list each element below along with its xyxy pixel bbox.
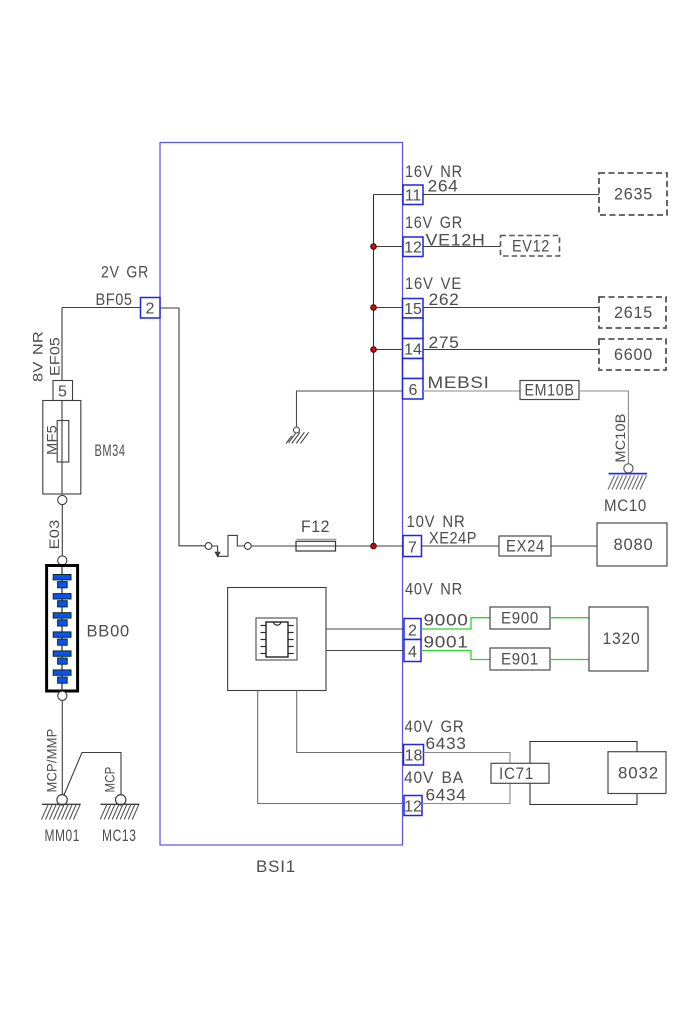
svg-text:MC10: MC10 xyxy=(604,497,647,515)
wire pin 11 to 2635 xyxy=(423,194,599,196)
pin 7 xyxy=(403,536,422,557)
svg-text:MCP/MMP: MCP/MMP xyxy=(44,729,60,793)
junction node pin 14 wire (red) xyxy=(371,347,377,353)
wire switch to fuse F12 and on to pin 7 xyxy=(251,545,403,547)
wire EM10B to ground MC10 xyxy=(579,391,628,464)
connector 6600 (dashed) xyxy=(599,339,666,370)
svg-text:BB00: BB00 xyxy=(87,623,131,641)
ground MC13 xyxy=(100,795,139,845)
wire pin 6 to EM10B xyxy=(423,390,520,392)
svg-text:9001: 9001 xyxy=(424,634,469,652)
svg-text:15: 15 xyxy=(404,301,422,318)
svg-text:E03: E03 xyxy=(46,519,62,549)
connector 2615 (dashed) xyxy=(599,297,666,328)
svg-text:2: 2 xyxy=(146,301,155,318)
svg-text:BSI1: BSI1 xyxy=(256,858,296,876)
svg-text:2615: 2615 xyxy=(614,304,653,322)
empty pin box below 15 xyxy=(403,318,424,339)
switch contact (ignition) xyxy=(205,535,251,557)
svg-text:264: 264 xyxy=(428,178,459,196)
pin 11 xyxy=(403,185,423,205)
connector EV12 (dashed) xyxy=(501,236,560,257)
svg-text:IC71: IC71 xyxy=(499,765,534,783)
node above battery BB00 xyxy=(58,556,67,565)
svg-text:40V BA: 40V BA xyxy=(404,769,464,787)
svg-text:5: 5 xyxy=(58,384,67,401)
BSI1 control unit box xyxy=(160,143,403,846)
wire pin 14 to 6600 xyxy=(423,349,599,351)
svg-text:8080: 8080 xyxy=(614,536,654,554)
svg-text:MM01: MM01 xyxy=(45,827,81,845)
pin 15 xyxy=(403,299,424,319)
wire pin 4 to E901 (green) xyxy=(421,651,490,660)
connector 2635 (dashed) xyxy=(599,173,667,215)
pin 2 (right) xyxy=(404,619,421,640)
svg-text:EF05: EF05 xyxy=(47,337,63,376)
pin 18 xyxy=(404,745,424,766)
junction node on pin7 wire (red) xyxy=(371,543,377,549)
wire E901 to 1320 (green) xyxy=(550,659,589,661)
svg-text:11: 11 xyxy=(405,188,422,205)
svg-text:EV12: EV12 xyxy=(512,238,550,256)
svg-text:4: 4 xyxy=(408,644,417,661)
wire IC71 to 8032 (top) xyxy=(530,742,637,764)
wire IC block to pin 12 (lower) xyxy=(258,691,404,804)
junction node pin 12 wire (red) xyxy=(371,244,377,250)
connector IC71 xyxy=(491,763,549,783)
battery BB00 xyxy=(47,566,78,692)
svg-text:MF5: MF5 xyxy=(44,425,60,455)
wire BF05 from node to left pin 2 xyxy=(62,307,140,309)
svg-text:6434: 6434 xyxy=(426,787,467,805)
component 8080 xyxy=(597,523,667,566)
svg-text:F12: F12 xyxy=(301,518,330,536)
svg-text:40V NR: 40V NR xyxy=(405,581,463,599)
wire to pin 14 xyxy=(374,349,403,351)
svg-text:16V GR: 16V GR xyxy=(405,214,463,232)
svg-text:MEBSI: MEBSI xyxy=(428,374,490,392)
svg-text:7: 7 xyxy=(408,540,417,557)
pin 5 (fuse holder BM34) xyxy=(53,381,73,401)
svg-text:12: 12 xyxy=(404,799,422,816)
svg-text:14: 14 xyxy=(404,342,422,359)
svg-text:1320: 1320 xyxy=(603,630,641,648)
internal ground of BSI1 xyxy=(286,427,309,444)
microcontroller block xyxy=(228,588,326,691)
svg-text:E901: E901 xyxy=(501,651,539,669)
svg-text:MCP: MCP xyxy=(102,767,118,793)
svg-text:EM10B: EM10B xyxy=(525,382,575,400)
svg-text:40V GR: 40V GR xyxy=(405,718,465,736)
wire IC block to pin 2 xyxy=(326,628,404,630)
svg-text:BF05: BF05 xyxy=(96,291,133,309)
ground MM01 xyxy=(42,795,81,845)
wire pin 2 to E900 (green) xyxy=(421,618,490,629)
wire E03 xyxy=(61,505,63,556)
svg-text:6600: 6600 xyxy=(614,346,653,364)
connector EX24 xyxy=(499,536,551,556)
svg-text:EX24: EX24 xyxy=(506,538,545,556)
svg-text:2V GR: 2V GR xyxy=(101,264,149,282)
wire IC block to pin 18 xyxy=(297,691,404,753)
svg-text:MC10B: MC10B xyxy=(612,414,628,463)
svg-text:2: 2 xyxy=(408,623,417,640)
wire pin 15 to 2615 xyxy=(423,307,599,309)
ground MC10 xyxy=(604,464,647,515)
svg-text:E900: E900 xyxy=(501,610,539,628)
wire pin 12 to EV12 xyxy=(423,246,500,248)
component 8032 xyxy=(608,752,666,794)
pin 12 xyxy=(403,237,423,257)
wire EX24 to 8080 xyxy=(551,545,597,547)
svg-text:10V NR: 10V NR xyxy=(407,513,466,531)
svg-text:8V NR: 8V NR xyxy=(30,331,46,382)
wire IC block to pin 4 xyxy=(326,650,404,652)
junction node pin 15 wire (red) xyxy=(371,305,377,311)
wire 8V NR vertical down to pin 5 xyxy=(61,308,63,382)
wire to pin 15 xyxy=(374,307,403,309)
component 1320 xyxy=(589,607,648,671)
pin 14 xyxy=(403,339,424,359)
pin 6 xyxy=(403,379,424,400)
fuse F12 xyxy=(296,518,337,551)
fuse box BM34 xyxy=(43,401,81,495)
connector EM10B xyxy=(520,381,579,400)
svg-text:8032: 8032 xyxy=(618,765,659,783)
wire to pin 11 xyxy=(374,194,404,196)
connector E900 xyxy=(490,607,550,629)
pin 4 xyxy=(404,640,421,662)
svg-text:12: 12 xyxy=(404,240,422,257)
svg-text:6433: 6433 xyxy=(426,735,467,753)
wire E900 to 1320 (green) xyxy=(550,617,589,619)
svg-text:MC13: MC13 xyxy=(102,827,137,845)
node below BM34 xyxy=(58,495,67,504)
bus wire vertical inside BSI1 xyxy=(373,195,375,547)
pin 2 (left edge of BSI1) xyxy=(141,298,161,319)
empty pin box below 14 xyxy=(403,359,424,379)
wire IC71 to 8032 (bottom) xyxy=(530,783,637,804)
wire pin 18 to IC71 (top) xyxy=(424,753,511,764)
svg-text:18: 18 xyxy=(405,748,423,765)
wire pin 6 to internal ground xyxy=(297,391,403,427)
node below battery BB00 xyxy=(58,691,67,700)
svg-text:9000: 9000 xyxy=(424,612,469,630)
wire to pin 12 xyxy=(374,246,404,248)
wire link MM01 to MC13 xyxy=(64,753,121,796)
svg-text:262: 262 xyxy=(429,291,460,309)
IC symbol U1 xyxy=(256,618,297,660)
svg-text:2635: 2635 xyxy=(614,186,653,204)
svg-text:XE24P: XE24P xyxy=(429,530,477,548)
wire pin 12 (lower) to IC71 (bottom) xyxy=(422,783,510,803)
wire MCP/MMP to ground MM01 xyxy=(61,700,63,795)
wire pin 7 to EX24 xyxy=(422,545,500,547)
pin 12 (lower) xyxy=(404,796,422,816)
connector E901 xyxy=(490,648,550,670)
svg-text:6: 6 xyxy=(409,382,418,399)
wire from pin 2 down to switch xyxy=(160,308,205,546)
svg-text:BM34: BM34 xyxy=(95,442,126,460)
